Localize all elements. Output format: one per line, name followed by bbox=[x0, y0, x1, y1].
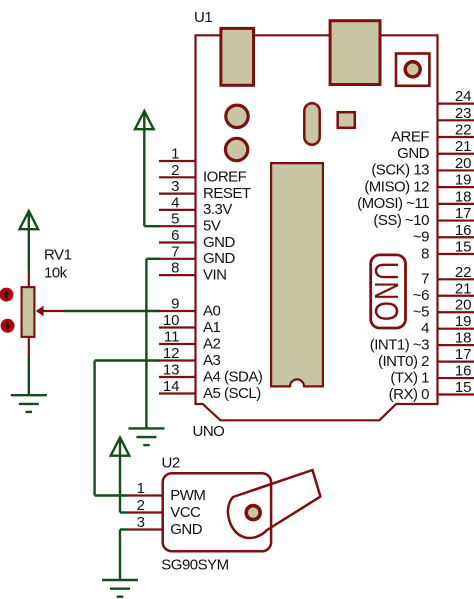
svg-text:2: 2 bbox=[171, 162, 179, 179]
svg-text:GND: GND bbox=[203, 250, 236, 267]
svg-text:GND: GND bbox=[203, 234, 236, 251]
svg-text:17: 17 bbox=[455, 346, 472, 363]
svg-text:24: 24 bbox=[455, 88, 472, 105]
svg-text:21: 21 bbox=[455, 280, 472, 297]
svg-text:5: 5 bbox=[171, 211, 179, 228]
svg-text:4: 4 bbox=[171, 194, 179, 211]
svg-text:(SS) ~10: (SS) ~10 bbox=[373, 212, 429, 229]
svg-text:20: 20 bbox=[455, 155, 472, 172]
svg-text:10: 10 bbox=[163, 312, 180, 329]
svg-text:A2: A2 bbox=[203, 335, 221, 352]
svg-text:PWM: PWM bbox=[170, 487, 205, 504]
svg-text:3.3V: 3.3V bbox=[203, 201, 232, 218]
svg-text:20: 20 bbox=[455, 297, 472, 314]
svg-text:AREF: AREF bbox=[391, 128, 429, 145]
svg-text:15: 15 bbox=[455, 238, 472, 255]
svg-text:12: 12 bbox=[163, 345, 180, 362]
svg-text:(INT1) ~3: (INT1) ~3 bbox=[370, 336, 429, 353]
svg-text:7: 7 bbox=[171, 243, 179, 260]
svg-text:19: 19 bbox=[455, 172, 472, 189]
svg-text:~5: ~5 bbox=[413, 304, 429, 321]
svg-text:(SCK) 13: (SCK) 13 bbox=[371, 162, 429, 179]
svg-text:9: 9 bbox=[171, 296, 179, 313]
svg-text:1: 1 bbox=[137, 480, 145, 497]
svg-text:VIN: VIN bbox=[203, 266, 227, 283]
svg-text:2: 2 bbox=[137, 497, 145, 514]
svg-text:A0: A0 bbox=[203, 302, 221, 319]
svg-text:23: 23 bbox=[455, 105, 472, 122]
svg-text:(INT0) 2: (INT0) 2 bbox=[378, 353, 429, 370]
svg-text:16: 16 bbox=[455, 222, 472, 239]
svg-text:RESET: RESET bbox=[203, 185, 251, 202]
svg-text:8: 8 bbox=[421, 245, 429, 262]
svg-text:4: 4 bbox=[421, 320, 429, 337]
svg-text:14: 14 bbox=[163, 378, 180, 395]
svg-text:1: 1 bbox=[171, 146, 179, 163]
svg-text:RV1: RV1 bbox=[44, 247, 72, 264]
svg-text:5V: 5V bbox=[203, 218, 221, 235]
svg-text:10k: 10k bbox=[44, 265, 68, 282]
svg-text:3: 3 bbox=[137, 514, 145, 531]
svg-text:U1: U1 bbox=[194, 9, 212, 26]
svg-text:15: 15 bbox=[455, 379, 472, 396]
svg-text:18: 18 bbox=[455, 330, 472, 347]
svg-text:3: 3 bbox=[171, 178, 179, 195]
svg-text:22: 22 bbox=[455, 122, 472, 139]
svg-text:A4 (SDA): A4 (SDA) bbox=[203, 368, 263, 385]
svg-text:7: 7 bbox=[421, 271, 429, 288]
svg-text:21: 21 bbox=[455, 138, 472, 155]
svg-text:(MOSI) ~11: (MOSI) ~11 bbox=[357, 195, 429, 212]
svg-text:8: 8 bbox=[171, 260, 179, 277]
svg-text:(MISO) 12: (MISO) 12 bbox=[364, 178, 429, 195]
svg-text:17: 17 bbox=[455, 205, 472, 222]
svg-text:VCC: VCC bbox=[170, 504, 201, 521]
svg-text:~9: ~9 bbox=[413, 229, 429, 246]
svg-text:UNO: UNO bbox=[193, 423, 225, 440]
svg-text:U2: U2 bbox=[162, 455, 180, 472]
svg-text:22: 22 bbox=[455, 264, 472, 281]
svg-text:A1: A1 bbox=[203, 319, 221, 336]
svg-text:A5 (SCL): A5 (SCL) bbox=[203, 385, 261, 402]
svg-text:11: 11 bbox=[164, 329, 180, 346]
svg-text:A3: A3 bbox=[203, 352, 221, 369]
svg-text:GND: GND bbox=[397, 145, 430, 162]
svg-text:13: 13 bbox=[163, 362, 180, 379]
svg-text:19: 19 bbox=[455, 313, 472, 330]
svg-text:(TX) 1: (TX) 1 bbox=[390, 369, 429, 386]
svg-text:GND: GND bbox=[170, 521, 203, 538]
svg-text:SG90SYM: SG90SYM bbox=[161, 557, 228, 574]
svg-text:IOREF: IOREF bbox=[203, 169, 247, 186]
svg-text:18: 18 bbox=[455, 188, 472, 205]
svg-text:UNO: UNO bbox=[367, 262, 404, 323]
svg-text:~6: ~6 bbox=[413, 287, 429, 304]
svg-text:6: 6 bbox=[171, 227, 179, 244]
svg-text:16: 16 bbox=[455, 363, 472, 380]
svg-text:(RX) 0: (RX) 0 bbox=[389, 386, 429, 403]
